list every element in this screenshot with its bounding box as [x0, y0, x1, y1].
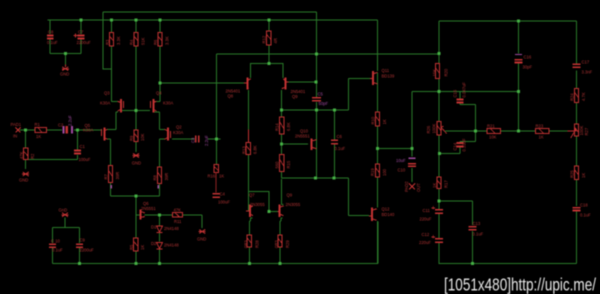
- capacitor C5 50pF compensation: [312, 91, 328, 106]
- svg-text:C16: C16: [524, 54, 532, 59]
- wire center node to R9: [135, 111, 137, 153]
- svg-text:2N5551: 2N5551: [295, 133, 310, 138]
- svg-text:R20: R20: [444, 68, 449, 76]
- svg-text:R8: R8: [153, 174, 158, 180]
- ground GND input: [19, 172, 29, 183]
- capacitor C3: [191, 135, 209, 146]
- svg-text:D2: D2: [151, 241, 157, 246]
- svg-text:R13: R13: [241, 146, 246, 154]
- svg-text:C18: C18: [580, 202, 588, 207]
- svg-text:R26: R26: [426, 125, 431, 133]
- wire R20 bias column: [438, 54, 440, 92]
- capacitor C12: [419, 232, 443, 245]
- resistor R20: [432, 63, 449, 78]
- svg-text:1K: 1K: [140, 245, 145, 250]
- svg-text:2200uF: 2200uF: [80, 248, 95, 253]
- svg-text:Q7: Q7: [249, 192, 255, 197]
- svg-text:[1051x480]http://upic.me/: [1051x480]http://upic.me/: [444, 275, 596, 294]
- transistor Q3 K30A: [100, 90, 123, 112]
- svg-text:100uF: 100uF: [218, 199, 230, 204]
- svg-text:R6: R6: [153, 39, 158, 45]
- svg-text:R4: R4: [129, 39, 134, 45]
- resistor R14: [275, 117, 292, 134]
- transistor Q6 2N5551: [140, 201, 157, 220]
- transistor Q4 K30A: [151, 90, 174, 112]
- wire R8 to diodes D1 D2 to rail: [159, 184, 161, 264]
- svg-text:R10: R10: [371, 116, 376, 124]
- svg-text:50pF: 50pF: [319, 101, 329, 106]
- svg-text:D1: D1: [151, 224, 157, 229]
- wire C17 R24 Q13 right column: [576, 71, 578, 264]
- capacitor C13: [469, 221, 484, 236]
- wire Q10 base: [282, 143, 308, 145]
- wire bottom left supply block: [52, 218, 79, 264]
- svg-text:R25: R25: [570, 170, 575, 178]
- resistor R7: [104, 165, 121, 182]
- svg-text:C14: C14: [453, 142, 458, 150]
- wire Q2 drain up to Q4: [154, 112, 165, 130]
- svg-text:R5: R5: [129, 244, 134, 250]
- transistor Q5 K30A: [83, 123, 107, 141]
- wire positive rail B left: [48, 20, 378, 71]
- svg-text:PAD1: PAD1: [11, 122, 22, 127]
- svg-text:Q9: Q9: [292, 94, 298, 99]
- wire VR2 column: [438, 91, 440, 263]
- svg-text:GnD: GnD: [59, 208, 68, 213]
- svg-text:GND: GND: [19, 178, 28, 183]
- svg-text:Q12: Q12: [382, 206, 391, 211]
- svg-text:0.33uF: 0.33uF: [462, 138, 467, 151]
- svg-text:K30A: K30A: [83, 128, 93, 133]
- svg-text:K30A: K30A: [173, 130, 183, 135]
- capacitor C4 bootstrap: [213, 191, 231, 204]
- svg-text:C10: C10: [398, 167, 406, 172]
- svg-text:K30A: K30A: [100, 100, 110, 105]
- wire output darlington left collector loop: [248, 191, 277, 211]
- svg-text:0.047uF: 0.047uF: [462, 82, 467, 98]
- svg-text:R3: R3: [105, 39, 110, 45]
- svg-text:C 10: C 10: [51, 238, 61, 243]
- svg-text:1K: 1K: [539, 135, 544, 140]
- svg-text:R16: R16: [208, 174, 216, 179]
- wire positive rail B right: [439, 21, 577, 64]
- capacitor C8: [47, 30, 58, 45]
- resistor R2: [19, 148, 35, 160]
- svg-text:C1: C1: [80, 144, 86, 149]
- wire VAS lower line y110: [282, 109, 349, 111]
- svg-text:1K: 1K: [382, 119, 387, 124]
- svg-text:39R: 39R: [115, 172, 120, 180]
- svg-text:10K: 10K: [140, 133, 145, 141]
- wire VAS supply line y54: [217, 54, 440, 138]
- wire C14 branch: [439, 142, 476, 154]
- svg-text:2.2uF: 2.2uF: [67, 115, 72, 126]
- svg-text:C3: C3: [191, 137, 196, 143]
- transistor Q2 K30A: [165, 124, 184, 140]
- wire C4 bootstrap column: [215, 139, 217, 164]
- svg-text:R7: R7: [104, 173, 109, 179]
- svg-text:C7: C7: [78, 30, 84, 35]
- svg-text:0.1uF: 0.1uF: [580, 212, 591, 217]
- svg-text:0.1uF: 0.1uF: [335, 146, 346, 151]
- resistor R6: [153, 33, 170, 47]
- svg-text:0.1uF: 0.1uF: [52, 248, 63, 253]
- wire R6 column: [154, 20, 160, 102]
- wire Q5 source to R7 column: [107, 139, 111, 196]
- svg-text:0R3: 0R3: [244, 240, 249, 248]
- svg-text:R29: R29: [285, 240, 290, 248]
- svg-text:R14: R14: [275, 123, 280, 131]
- svg-text:C4: C4: [220, 191, 226, 196]
- capacitor C11: [420, 206, 444, 221]
- resistor R4: [129, 33, 146, 47]
- svg-text:1K: 1K: [219, 174, 224, 179]
- wire bias column x348.7: [348, 79, 350, 111]
- svg-text:2N5551: 2N5551: [141, 206, 156, 211]
- diode D1: [151, 224, 179, 232]
- svg-text:R12: R12: [262, 35, 267, 43]
- wire Q8 collector to R13 to Q7 base: [247, 90, 250, 211]
- svg-text:47K: 47K: [19, 151, 24, 159]
- capacitor C16: [515, 54, 533, 69]
- svg-text:2.2uF: 2.2uF: [204, 135, 209, 146]
- svg-text:C11: C11: [423, 208, 431, 213]
- svg-text:C2: C2: [58, 122, 64, 127]
- svg-text:BD139: BD139: [382, 73, 395, 78]
- svg-text:1K: 1K: [581, 173, 586, 178]
- svg-text:R11: R11: [174, 219, 182, 224]
- svg-text:C17: C17: [582, 59, 590, 64]
- label tick marks: [111, 185, 159, 188]
- wire R12 column: [268, 20, 270, 64]
- svg-text:R2: R2: [30, 153, 35, 159]
- capacitor C14: [453, 138, 467, 151]
- wire R2 column: [25, 130, 27, 169]
- svg-text:0R3: 0R3: [274, 240, 279, 248]
- capacitor C7: [74, 30, 92, 45]
- svg-text:Q2: Q2: [176, 124, 182, 129]
- wire Q9 base to compensation node: [289, 81, 316, 83]
- capacitor C6: [331, 134, 345, 151]
- svg-text:GND: GND: [60, 71, 69, 76]
- wire output pair emitter columns: [249, 218, 282, 264]
- ground GND bias: [197, 230, 206, 242]
- svg-text:GND: GND: [197, 237, 206, 242]
- ground GND tail: [132, 154, 141, 166]
- svg-text:PAD2: PAD2: [404, 181, 409, 192]
- svg-text:Q4: Q4: [156, 90, 162, 95]
- capacitor C2: [58, 115, 72, 134]
- wire Q8 Q9 emitter bracket: [251, 64, 284, 79]
- resistor R5: [129, 238, 145, 251]
- svg-text:4R: 4R: [273, 38, 278, 43]
- resistor R28 emitter left: [244, 235, 260, 248]
- resistor R16 bootstrap: [208, 164, 225, 192]
- resistor R9: [129, 130, 145, 141]
- svg-text:2N3055: 2N3055: [286, 202, 301, 207]
- capacitor C18: [573, 202, 592, 217]
- resistor R11: [172, 208, 182, 224]
- svg-text:2200uF: 2200uF: [77, 40, 92, 45]
- wire Q3 source to center node: [122, 110, 136, 112]
- svg-text:R23: R23: [536, 123, 544, 128]
- svg-text:R19: R19: [370, 168, 375, 176]
- resistor R15: [275, 154, 292, 171]
- svg-text:0.1uF: 0.1uF: [473, 231, 484, 236]
- svg-text:Q9: Q9: [287, 192, 293, 197]
- resistor R3: [105, 33, 121, 47]
- svg-text:2N4148: 2N4148: [164, 226, 179, 231]
- svg-text:10K: 10K: [489, 135, 497, 140]
- svg-text:15K: 15K: [432, 69, 437, 77]
- svg-text:R27: R27: [584, 127, 589, 135]
- wire bottom negative rail: [53, 222, 379, 264]
- svg-text:51K: 51K: [141, 37, 146, 45]
- resistor R17: [432, 177, 449, 188]
- svg-text:10uF: 10uF: [396, 158, 406, 163]
- svg-text:2N4148: 2N4148: [164, 243, 179, 248]
- wire Q2 source to R8 column: [160, 139, 166, 167]
- svg-text:3.3K: 3.3K: [165, 36, 170, 45]
- resistor R19: [370, 164, 387, 177]
- svg-text:220uF: 220uF: [420, 217, 432, 222]
- svg-text:R21: R21: [487, 123, 495, 128]
- capacitor C10b: [49, 238, 63, 252]
- svg-text:R17: R17: [444, 180, 449, 188]
- wire driver column x377.6: [377, 73, 379, 264]
- svg-text:R15: R15: [286, 160, 291, 168]
- svg-text:OUT: OUT: [416, 183, 421, 192]
- transistor Q9 2N5401: [282, 78, 306, 99]
- transistor Q12 BD140: [369, 206, 395, 221]
- wire bottom right return: [439, 263, 577, 265]
- wire C13 branch: [439, 201, 472, 264]
- wire C8 C7 supply decoupling block: [50, 20, 81, 65]
- wire C15 C14 right link column: [475, 105, 477, 142]
- wire feedback line y131 R21 R23: [445, 130, 568, 132]
- wire Q5 drain up to Q3: [107, 112, 118, 130]
- capacitor C17: [573, 59, 593, 74]
- wire Q2 gate to C3: [172, 138, 195, 140]
- svg-text:30pF: 30pF: [523, 64, 533, 69]
- wire output top line y91.3: [412, 90, 519, 92]
- resistor R23: [535, 123, 549, 139]
- svg-text:3.3nF: 3.3nF: [582, 69, 593, 74]
- capacitor C9: [76, 238, 94, 253]
- ground GND bottom-left: [59, 208, 69, 217]
- svg-text:220uF: 220uF: [419, 240, 431, 245]
- wire C16 column: [518, 21, 520, 131]
- wire VAS emitter line y178: [282, 177, 349, 179]
- svg-text:6.8K: 6.8K: [286, 122, 291, 131]
- wire C1 column: [26, 130, 78, 160]
- wire R5 column: [135, 215, 137, 264]
- svg-text:4.7K: 4.7K: [581, 92, 586, 101]
- wire Q8 base from input stage: [160, 82, 244, 84]
- svg-text:C9: C9: [80, 238, 86, 243]
- wire C6 column: [334, 110, 336, 178]
- svg-text:3.3K: 3.3K: [116, 36, 121, 45]
- wire R3 column: [112, 20, 119, 102]
- capacitor C15: [453, 82, 467, 103]
- svg-text:1K: 1K: [36, 134, 41, 139]
- svg-text:Q11: Q11: [382, 68, 390, 73]
- resistor R10: [371, 112, 388, 126]
- pad PAD2 output: [404, 181, 421, 192]
- wire Q6 base network: [111, 196, 160, 215]
- wire C3 to C4 bootstrap node: [208, 138, 221, 140]
- transistor Q11 BD139: [370, 68, 395, 85]
- transistor Q7 driver: [246, 192, 265, 217]
- wire Q6 emitter R11 to gnd: [145, 215, 203, 228]
- wire R4 column: [135, 20, 137, 111]
- svg-text:R28: R28: [255, 240, 260, 248]
- svg-text:GND: GND: [132, 160, 141, 165]
- svg-text:100: 100: [382, 168, 387, 176]
- resistor R12: [262, 31, 279, 45]
- diode D2: [151, 241, 179, 249]
- resistor R21: [487, 123, 501, 139]
- svg-text:100K: 100K: [432, 124, 437, 134]
- transistor Q8 2N5401: [226, 78, 251, 99]
- wire Q4 source to center node: [136, 110, 150, 112]
- svg-text:560: 560: [275, 161, 280, 169]
- wire output right collector column: [282, 179, 284, 205]
- resistor R1: [35, 122, 47, 139]
- pad PAD1 input: [11, 122, 22, 139]
- svg-text:0.1uF: 0.1uF: [47, 40, 58, 45]
- wire positive rail A: [103, 12, 317, 69]
- svg-text:C13: C13: [473, 221, 481, 226]
- svg-text:C8: C8: [48, 30, 54, 35]
- trimmer VR2: [426, 121, 447, 135]
- wire output node line y148.4: [378, 147, 413, 149]
- resistor R29 emitter right: [274, 235, 290, 248]
- svg-text:K30A: K30A: [163, 100, 173, 105]
- capacitor C1: [74, 144, 91, 162]
- svg-text:Q3: Q3: [104, 90, 110, 95]
- svg-text:C12: C12: [422, 232, 430, 237]
- svg-text:BD140: BD140: [382, 212, 395, 217]
- svg-text:100uF: 100uF: [79, 157, 91, 162]
- resistor R25: [570, 166, 587, 179]
- svg-text:C15: C15: [453, 89, 458, 97]
- svg-text:R24: R24: [570, 93, 575, 101]
- svg-text:2N3055: 2N3055: [250, 202, 265, 207]
- svg-text:47K: 47K: [174, 208, 182, 213]
- transistor Q13 driver: [568, 124, 590, 138]
- svg-text:39R: 39R: [164, 173, 169, 181]
- svg-text:R1: R1: [35, 122, 41, 127]
- svg-text:Q8: Q8: [228, 93, 234, 98]
- capacitor C10 output: [396, 158, 416, 173]
- svg-text:IN: IN: [13, 134, 17, 139]
- wire input line to Q5 gate: [20, 129, 102, 131]
- transistor Q10 2N5551: [295, 129, 317, 150]
- svg-text:6.8K: 6.8K: [252, 145, 257, 154]
- wire VAS column C4a Q10: [316, 12, 318, 178]
- ground GND top-left: [60, 65, 69, 77]
- wire Q12 base: [349, 178, 370, 216]
- transistor Q14 output: [278, 192, 301, 217]
- svg-text:1K: 1K: [432, 183, 437, 188]
- svg-text:C6: C6: [337, 134, 343, 139]
- wire output column C10 PAD2: [411, 91, 413, 182]
- svg-text:C5: C5: [318, 91, 324, 96]
- wire C15 branch: [460, 91, 476, 104]
- wire Q11 base: [349, 78, 370, 80]
- svg-text:R9: R9: [129, 135, 134, 141]
- resistor R8: [153, 167, 170, 184]
- wire Q9 collector column to VAS: [281, 90, 283, 178]
- resistor R13: [241, 130, 257, 155]
- resistor R24: [570, 88, 587, 102]
